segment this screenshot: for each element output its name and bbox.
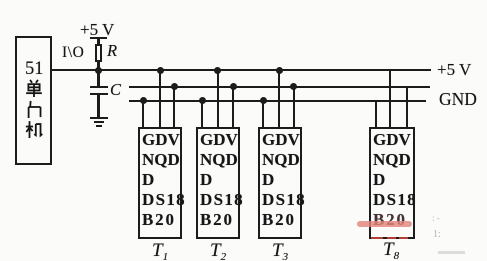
sensor T8 box DS18B20 xyxy=(369,127,415,239)
sensor T3: DQ wire xyxy=(278,70,280,127)
sensor T3: GND junction dot xyxy=(260,97,267,104)
wire: I/O data line (bus line 1) xyxy=(52,69,431,71)
resistor R body xyxy=(95,44,102,62)
capacitor C label xyxy=(110,80,121,100)
sensor T2: VDD junction dot xyxy=(230,83,237,90)
MCU char 单 xyxy=(25,79,43,97)
sensor T2 box DS18B20 xyxy=(196,127,240,239)
sensor T2: GND wire xyxy=(201,100,203,127)
sensor T2 box text xyxy=(200,130,244,230)
red watermark dashes on T8 box bottom xyxy=(371,237,383,240)
sensor T8: DQ wire xyxy=(389,70,391,127)
sensor T1 box DS18B20 xyxy=(138,127,182,239)
GND rail label (right) xyxy=(439,89,477,110)
resistor R label xyxy=(107,41,117,61)
sensor T1: DQ junction dot xyxy=(157,67,164,74)
sensor T1: GND wire xyxy=(142,100,144,127)
51 MCU box xyxy=(15,36,52,165)
red watermark band across B20 xyxy=(357,221,412,228)
wire: +5V terminal to resistor xyxy=(97,38,99,45)
sensor T3: GND wire xyxy=(262,100,264,127)
node A junction dot (resistor/cap on data line) xyxy=(95,67,102,74)
+5V terminal bar xyxy=(90,37,107,40)
51 MCU label text xyxy=(25,59,44,80)
sensor T1: VDD wire xyxy=(173,86,175,127)
MCU char 片 xyxy=(25,100,43,118)
sensor T2: VDD wire xyxy=(232,86,234,127)
label T8 xyxy=(383,239,399,261)
I\O pin label xyxy=(62,44,84,62)
sensor T3: DQ junction dot xyxy=(276,67,283,74)
faint gray marks right of T8 xyxy=(432,213,445,217)
sensor T1: VDD junction dot xyxy=(171,83,178,90)
sensor T8 box text xyxy=(373,130,417,230)
sensor T8: VDD wire xyxy=(406,86,408,127)
sensor T2: DQ wire xyxy=(217,70,219,127)
label T2 xyxy=(210,240,226,261)
wire: capacitor to ground xyxy=(97,95,99,117)
wire: GND rail (bus line 3) xyxy=(129,100,426,102)
sensor T3: VDD wire xyxy=(293,86,295,127)
wire: node A down to capacitor xyxy=(97,71,99,86)
sensor T1: DQ wire xyxy=(159,70,161,127)
capacitor C bottom plate xyxy=(90,93,108,95)
sensor T3 box DS18B20 xyxy=(258,127,302,239)
+5 V rail label (right) xyxy=(437,60,471,80)
wire: resistor to node A xyxy=(97,61,99,70)
+5V terminal label (top) xyxy=(80,20,114,40)
MCU char 机 xyxy=(25,120,43,138)
capacitor C top plate xyxy=(90,86,108,88)
sensor T2: DQ junction dot xyxy=(214,67,221,74)
label T1 xyxy=(152,240,168,261)
sensor T1 box text xyxy=(142,130,186,230)
sensor T3: VDD junction dot xyxy=(290,83,297,90)
sensor T2: GND junction dot xyxy=(199,97,206,104)
sensor T8: GND wire xyxy=(375,100,377,127)
wire: +5V rail (bus line 2) xyxy=(129,86,430,88)
ground symbol xyxy=(90,117,108,119)
sensor T3 box text xyxy=(262,130,306,230)
sensor T1: GND junction dot xyxy=(140,97,147,104)
label T3 xyxy=(272,240,288,261)
